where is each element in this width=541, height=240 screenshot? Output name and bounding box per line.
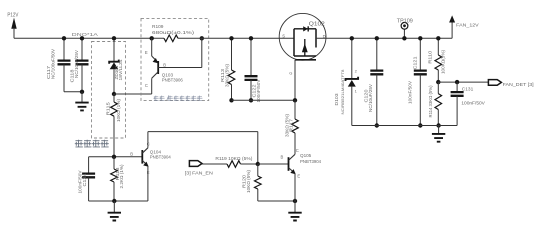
connector FAN_EN [2]: [185, 161, 227, 177]
svg-text:10KΩ (1%): 10KΩ (1%): [116, 98, 121, 122]
svg-text:C134: C134: [82, 173, 87, 187]
resistor R120: [242, 164, 262, 201]
svg-text:R114 33KΩ (5%): R114 33KΩ (5%): [428, 85, 433, 118]
wire main 12V rail left: [14, 37, 164, 39]
svg-text:PNBT3904: PNBT3904: [300, 159, 321, 164]
svg-text:100nF/50V: 100nF/50V: [408, 81, 413, 104]
svg-text:Q102: Q102: [309, 21, 325, 27]
svg-text:B: B: [130, 152, 133, 157]
svg-text:NC/RB521LM40ATFT8: NC/RB521LM40ATFT8: [340, 69, 345, 115]
svg-text:G: G: [289, 71, 292, 76]
wire node to Q105 base: [258, 163, 289, 165]
power flag FAN_12V: [449, 15, 479, 38]
svg-text:C121: C121: [413, 56, 418, 70]
wire bottom return rail: [352, 125, 457, 127]
capacitor C134: [78, 157, 96, 201]
svg-text:E: E: [145, 50, 148, 55]
svg-text:C: C: [145, 83, 148, 88]
svg-text:[3] FAN_EN: [3] FAN_EN: [185, 171, 214, 177]
MOSFET Q102 (P-ch with body diode): [279, 13, 326, 75]
ground under C117/C118: [75, 92, 88, 111]
svg-text:100nF/50V: 100nF/50V: [256, 79, 261, 102]
svg-text:FAN_12V: FAN_12V: [456, 22, 479, 28]
svg-text:C: C: [296, 148, 299, 153]
wire Q104 base node: [89, 156, 143, 158]
dashed box overcurrent/short protection: [141, 18, 209, 100]
svg-text:DNO*1A: DNO*1A: [72, 32, 98, 37]
svg-text:100KΩ(5%): 100KΩ(5%): [441, 49, 446, 74]
svg-text:PNBT3904: PNBT3904: [150, 155, 171, 160]
svg-text:R110: R110: [428, 50, 433, 64]
resistor R114: [428, 82, 442, 128]
transistor Q105 PNBT3904: [281, 148, 322, 201]
test point TP109: [397, 18, 413, 40]
ground center: [288, 201, 301, 221]
wire Q104 collector to R119 node: [148, 131, 258, 133]
power flag P12V: [7, 13, 19, 39]
wire cap bottoms: [64, 91, 82, 93]
svg-text:C: C: [147, 141, 150, 146]
svg-text:S: S: [282, 34, 285, 39]
capacitor C122: [245, 36, 262, 102]
svg-text:B: B: [281, 154, 284, 159]
resistor R115: [105, 94, 121, 157]
resistor R109: [150, 24, 205, 41]
wire node zener to Q103 C: [114, 93, 152, 95]
zener diode ZD101: [109, 36, 123, 96]
svg-text:100nF/50V: 100nF/50V: [461, 101, 485, 107]
resistor R110: [428, 36, 446, 84]
svg-text:FAN_DET [3]: FAN_DET [3]: [503, 82, 534, 88]
svg-text:680uΩ(±0.1%): 680uΩ(±0.1%): [152, 30, 195, 36]
svg-text:18V/LL34: 18V/LL34: [118, 59, 123, 81]
capacitor C118: [70, 36, 89, 92]
transistor Q103 PNBT3906: [145, 38, 202, 94]
transistor Q104 PNBT3904: [130, 132, 171, 201]
capacitor C120: [364, 36, 384, 128]
resistor R117: [285, 100, 299, 154]
svg-text:NC/10uF/25V: NC/10uF/25V: [368, 84, 373, 112]
dashed box overvoltage protection: [92, 42, 126, 139]
wire main rail right: [316, 37, 452, 39]
svg-text:R119 10KΩ (5%): R119 10KΩ (5%): [215, 156, 253, 161]
svg-text:C131: C131: [462, 86, 474, 92]
label 过压保护 (overvoltage protection): [75, 140, 109, 147]
wire FAN_DET net: [438, 81, 488, 83]
svg-text:R115: R115: [105, 102, 110, 116]
svg-text:Q105: Q105: [300, 153, 312, 158]
resistor R113: [220, 36, 235, 102]
resistor R118: [111, 157, 124, 201]
resistor R119: [215, 156, 260, 168]
capacitor C117: [46, 36, 71, 92]
svg-text:B: B: [163, 62, 166, 67]
connector FAN_DET [3]: [488, 80, 533, 88]
svg-text:E: E: [147, 170, 150, 175]
wire rail mid: [178, 37, 294, 39]
svg-text:NC/10uF/25V: NC/10uF/25V: [74, 50, 79, 78]
label 过流/短路保护电路 (overcurrent/short protection circuit): [153, 95, 202, 100]
svg-text:NC/100uF/50V: NC/100uF/50V: [51, 49, 56, 79]
wire bottom center: [258, 200, 295, 202]
svg-text:R109: R109: [152, 24, 164, 30]
svg-text:R117: R117: [288, 118, 293, 132]
wire bottom left: [89, 200, 148, 202]
svg-text:PNBT3906: PNBT3906: [162, 78, 183, 83]
wire gate net: [232, 99, 296, 101]
ground right: [432, 126, 445, 142]
svg-text:10KΩ (5%): 10KΩ (5%): [246, 169, 251, 193]
ground left-bottom: [108, 201, 121, 221]
capacitor C131: [451, 82, 486, 125]
diode D103 (schottky): [334, 36, 358, 125]
capacitor C121: [408, 36, 427, 128]
svg-text:33KΩ (5%): 33KΩ (5%): [224, 63, 229, 87]
svg-text:TP109: TP109: [397, 18, 413, 24]
svg-text:2.2KΩ (1%): 2.2KΩ (1%): [119, 164, 124, 189]
svg-text:E: E: [297, 174, 300, 179]
svg-text:P12V: P12V: [7, 13, 19, 19]
svg-text:D103: D103: [334, 93, 339, 106]
